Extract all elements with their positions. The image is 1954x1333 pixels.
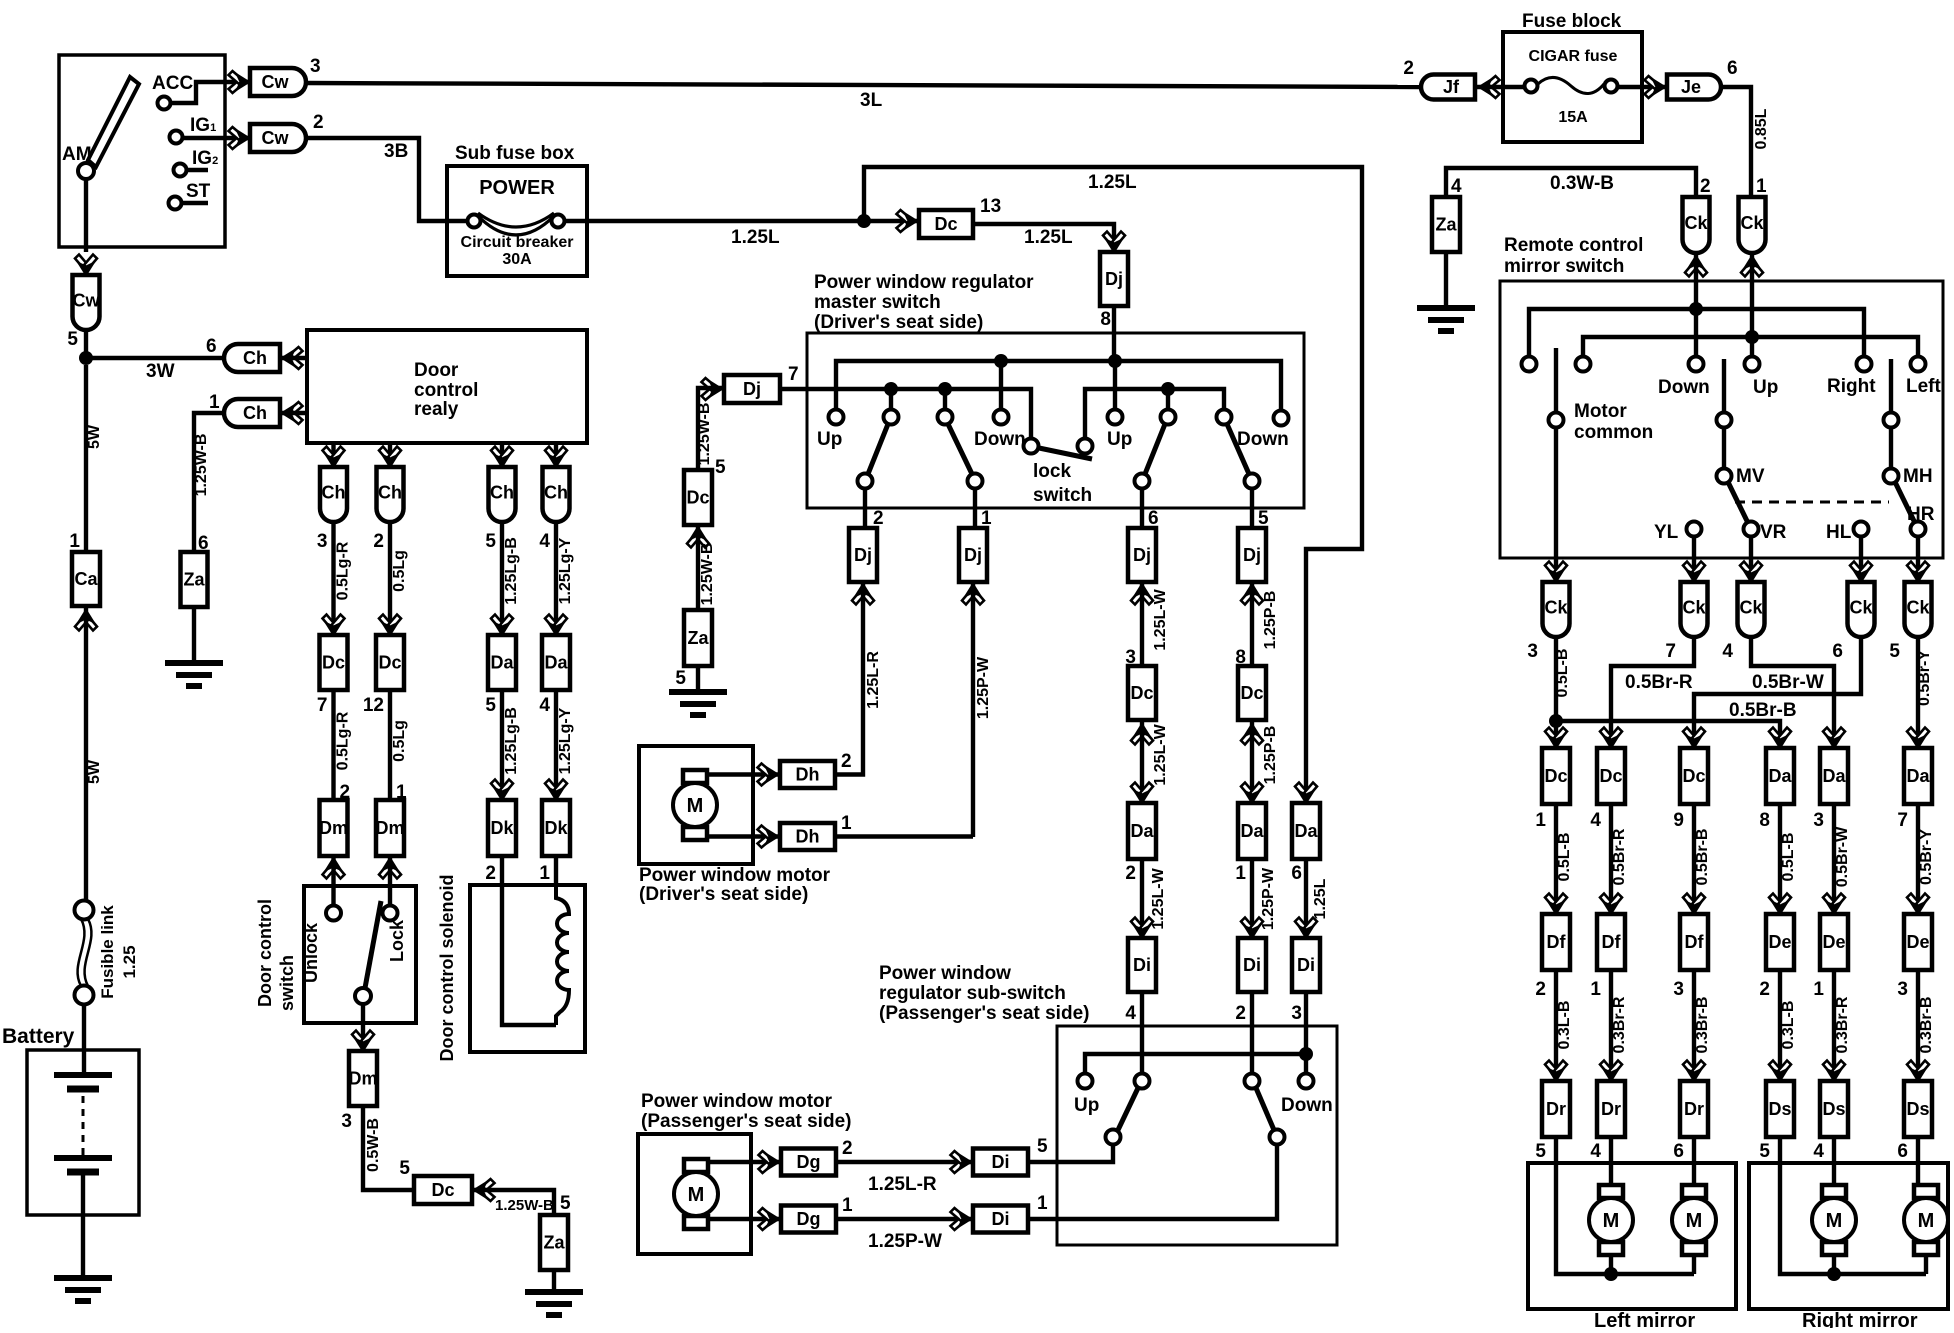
svg-text:0.3Br-R: 0.3Br-R — [1834, 996, 1851, 1053]
ground — [525, 1292, 583, 1315]
terminal contact — [884, 410, 899, 425]
wire Za to ground — [696, 666, 700, 692]
terminal — [1717, 413, 1732, 428]
svg-text:Ch: Ch — [378, 483, 402, 503]
connector Dj pin 7 — [724, 375, 780, 403]
svg-text:5: 5 — [715, 457, 726, 478]
svg-text:Battery: Battery — [2, 1025, 75, 1048]
svg-text:1.25Lg-Y: 1.25Lg-Y — [557, 707, 574, 774]
wire 1.25W-B feed — [698, 388, 724, 470]
wire 5W lower — [84, 606, 88, 901]
terminal Up (driver) — [829, 410, 844, 425]
wire 1.25L-R to Di5 — [836, 1160, 973, 1164]
connector Dh pin 1 — [780, 823, 835, 850]
svg-text:6: 6 — [1832, 641, 1843, 662]
connector Ck pin 1 — [1739, 197, 1766, 253]
wire Dh1 up to Dj1 — [835, 834, 973, 838]
svg-text:4: 4 — [1125, 1003, 1136, 1024]
svg-text:1.25L-W: 1.25L-W — [1152, 588, 1169, 650]
svg-text:regulator sub-switch: regulator sub-switch — [879, 983, 1066, 1004]
svg-text:2: 2 — [1125, 863, 1136, 884]
connector Dc arrow — [474, 1179, 495, 1201]
svg-text:0.3L-B: 0.3L-B — [1780, 1001, 1797, 1050]
svg-text:0.5W-B: 0.5W-B — [365, 1118, 382, 1172]
svg-text:Down: Down — [1237, 429, 1289, 450]
svg-text:Ck: Ck — [1849, 598, 1873, 618]
svg-text:0.3Br-B: 0.3Br-B — [1918, 997, 1935, 1054]
battery cell plates — [54, 1072, 112, 1078]
wire 0.5Lg-R — [331, 522, 335, 635]
svg-text:Ck: Ck — [1544, 598, 1568, 618]
fusible link — [75, 901, 94, 920]
node junction 0.5 L-B — [1549, 714, 1563, 728]
svg-text:3: 3 — [1527, 641, 1538, 662]
wire Dj7 bus — [780, 389, 1031, 439]
connector Dj pin 5 — [1238, 528, 1266, 582]
wire Ck7 to Dc4 — [1611, 637, 1694, 748]
door control relay box — [307, 330, 587, 443]
svg-text:Dm: Dm — [319, 818, 348, 838]
svg-text:0.3W-B: 0.3W-B — [1550, 173, 1614, 194]
svg-text:1.25W-B: 1.25W-B — [699, 543, 716, 606]
connector Da pin 8 — [1769, 728, 1791, 749]
connector Dr pin 6 — [1683, 1061, 1705, 1082]
terminal Up (sub) — [1078, 1074, 1093, 1089]
svg-text:Cw: Cw — [73, 291, 101, 311]
svg-text:8: 8 — [1100, 309, 1111, 330]
wire 0.3W-B — [1446, 168, 1696, 197]
svg-text:Ds: Ds — [1768, 1099, 1791, 1119]
svg-text:Ck: Ck — [1682, 598, 1706, 618]
terminal contact — [1135, 1074, 1150, 1089]
connector Ch1 arrow — [282, 402, 303, 424]
svg-text:Dj: Dj — [1133, 545, 1151, 565]
svg-text:5: 5 — [67, 329, 78, 350]
svg-text:Df: Df — [1602, 932, 1622, 952]
lock switch terminal — [1078, 439, 1093, 454]
svg-text:3: 3 — [1813, 810, 1824, 831]
svg-text:Di: Di — [1243, 955, 1261, 975]
motor M right-horizontal — [1914, 1185, 1938, 1198]
wire Za ground — [552, 1270, 556, 1292]
svg-text:Ch: Ch — [243, 403, 267, 423]
svg-text:2: 2 — [1403, 58, 1414, 79]
svg-text:AM: AM — [62, 144, 92, 165]
wire Di2 into sub-switch — [1250, 992, 1254, 1074]
connector Jf arrow — [1479, 76, 1500, 98]
svg-text:2: 2 — [373, 531, 384, 552]
wire to Dj5 — [1250, 488, 1254, 528]
connector Dj pin 1 — [959, 528, 987, 582]
wire stub contact — [943, 389, 947, 410]
connector Dm pin 3 — [349, 1051, 377, 1106]
svg-text:4: 4 — [539, 695, 550, 716]
svg-text:Da: Da — [1822, 766, 1846, 786]
svg-text:1.25: 1.25 — [120, 945, 139, 978]
svg-text:Power window: Power window — [879, 963, 1011, 984]
svg-text:1: 1 — [842, 1195, 853, 1216]
connector Ck pin 4 — [1738, 582, 1765, 637]
terminal common — [355, 988, 371, 1004]
svg-text:Dc: Dc — [1130, 683, 1153, 703]
svg-text:0.5Br-R: 0.5Br-R — [1611, 828, 1628, 885]
connector Ck pin 6 arrow — [1850, 562, 1872, 583]
svg-text:Dm: Dm — [348, 1069, 377, 1089]
svg-text:Ca: Ca — [74, 569, 98, 589]
left mirror box — [1528, 1163, 1736, 1309]
svg-text:4: 4 — [539, 531, 550, 552]
svg-text:6: 6 — [1897, 1141, 1908, 1162]
svg-text:Cw: Cw — [262, 128, 290, 148]
svg-text:5W: 5W — [86, 759, 103, 784]
wire stub contact — [889, 389, 893, 410]
wire Ck5 to Da7 — [1916, 637, 1920, 748]
terminal lever — [968, 474, 983, 489]
svg-text:Right: Right — [1827, 376, 1876, 397]
connector Da pin 7 — [1907, 728, 1929, 749]
svg-text:4: 4 — [1590, 810, 1601, 831]
svg-text:5: 5 — [675, 668, 686, 689]
connector Ch pin 1 — [224, 399, 280, 427]
svg-text:Down: Down — [1281, 1095, 1333, 1116]
wire 1.25L upper branch — [864, 167, 1362, 803]
svg-text:Df: Df — [1685, 932, 1705, 952]
door switch lever — [365, 901, 381, 988]
svg-text:3B: 3B — [384, 141, 408, 162]
svg-text:(Driver's seat side): (Driver's seat side) — [814, 312, 983, 333]
svg-text:3: 3 — [317, 531, 328, 552]
svg-text:1: 1 — [69, 531, 80, 552]
switch lever — [868, 424, 888, 474]
svg-text:Dm: Dm — [375, 818, 404, 838]
svg-text:1.25Lg-B: 1.25Lg-B — [503, 707, 520, 775]
connector Cw pin 2 arrow — [229, 127, 250, 149]
wire Ck1 to Up — [1750, 253, 1754, 356]
svg-text:5: 5 — [1535, 1141, 1546, 1162]
svg-text:M: M — [687, 795, 704, 817]
svg-text:0.5Lg-R: 0.5Lg-R — [335, 711, 352, 770]
svg-text:Je: Je — [1681, 77, 1701, 97]
svg-text:Da: Da — [1768, 766, 1792, 786]
svg-text:6: 6 — [1291, 863, 1302, 884]
svg-text:1.25P-B: 1.25P-B — [1262, 726, 1279, 785]
svg-text:CIGAR fuse: CIGAR fuse — [1529, 48, 1618, 65]
svg-text:Za: Za — [1435, 215, 1457, 235]
svg-text:1: 1 — [1535, 810, 1546, 831]
svg-text:POWER: POWER — [479, 177, 555, 199]
connector Dg pin 1 — [781, 1206, 836, 1233]
wire motor to Dh2 — [707, 772, 780, 776]
svg-text:Dg: Dg — [797, 1209, 821, 1229]
wire MH column — [1889, 359, 1893, 468]
wire 0.3L-B — [1554, 970, 1558, 1081]
svg-text:realy: realy — [414, 399, 459, 420]
svg-text:Da: Da — [490, 653, 514, 673]
connector Dc pin 5 (door) — [414, 1176, 472, 1204]
node bus junction — [1108, 354, 1122, 368]
svg-text:7: 7 — [317, 695, 328, 716]
sub fuse box — [447, 166, 587, 276]
wire solenoid left leg — [502, 885, 556, 1025]
power window motor passenger box — [638, 1134, 751, 1254]
wire 0.5L-B — [1778, 804, 1782, 914]
svg-text:0.5Br-R: 0.5Br-R — [1625, 672, 1693, 693]
connector Ck pin 3 arrow — [1545, 562, 1567, 583]
svg-text:6: 6 — [1727, 58, 1738, 79]
wire to Unlock — [331, 886, 335, 905]
wire 0.3Br-R — [1609, 970, 1613, 1081]
lock switch terminal — [1024, 439, 1039, 454]
connector Dc pin 8 — [1238, 666, 1266, 720]
wire Di5 into sub-switch — [1028, 1144, 1113, 1162]
wire 1.25L col5 — [1295, 783, 1317, 804]
battery box — [27, 1050, 139, 1215]
terminal contact — [1217, 410, 1232, 425]
wire 1.25Lg-B — [500, 690, 504, 800]
svg-text:Fuse block: Fuse block — [1522, 11, 1622, 32]
wire 1.25L from breaker — [565, 219, 919, 223]
wire Da to Di — [1250, 859, 1254, 938]
svg-text:Up: Up — [1074, 1095, 1099, 1116]
connector Da pin 4 — [542, 635, 570, 690]
svg-text:6: 6 — [206, 336, 217, 357]
terminal Down — [1689, 357, 1704, 372]
connector Ck pin 4 arrow — [1740, 562, 1762, 583]
svg-text:ACC: ACC — [152, 73, 193, 94]
wire 0.5Lg-R — [331, 690, 335, 800]
svg-text:Dr: Dr — [1684, 1099, 1704, 1119]
svg-text:1: 1 — [841, 813, 852, 834]
connector Ds pin 6 — [1907, 1061, 1929, 1082]
terminal ST — [169, 197, 182, 210]
wire to battery — [82, 1004, 86, 1075]
wire Ck2 to Down — [1694, 253, 1698, 356]
connector Da pin 5 — [488, 635, 516, 690]
connector Ds pin 5 — [1769, 1061, 1791, 1082]
svg-text:Za: Za — [543, 1233, 565, 1253]
svg-text:Dr: Dr — [1546, 1099, 1566, 1119]
connector Di pin 1 — [973, 1206, 1028, 1233]
svg-text:3: 3 — [1673, 979, 1684, 1000]
connector Dk — [488, 800, 516, 856]
switch lever — [1256, 1088, 1274, 1130]
wire 0.5Br-B branch to Da8 — [1556, 721, 1780, 748]
svg-text:Jf: Jf — [1443, 77, 1460, 97]
svg-text:Da: Da — [1240, 821, 1264, 841]
wire to solenoid — [554, 856, 558, 885]
connector Ck pin 2 — [1683, 197, 1710, 253]
svg-text:Dc: Dc — [1544, 766, 1567, 786]
connector Jf pin 2 — [1421, 75, 1475, 100]
svg-text:De: De — [1906, 932, 1929, 952]
node junction 1.25L — [857, 214, 871, 228]
wire 1.25L-R col — [861, 584, 865, 774]
wire 1.25L to master switch — [973, 224, 1114, 252]
svg-text:1.25L: 1.25L — [1088, 172, 1137, 193]
wire 1.25Lg-Y — [554, 522, 558, 635]
svg-text:Dj: Dj — [1105, 269, 1123, 289]
wire 0.5Lg — [388, 690, 392, 800]
svg-text:Door control: Door control — [255, 899, 275, 1007]
svg-text:HL: HL — [1826, 522, 1852, 543]
connector Ch6 arrow — [282, 347, 303, 369]
wire 0.5Br-R — [1609, 804, 1613, 914]
svg-text:0.3Br-B: 0.3Br-B — [1694, 997, 1711, 1054]
remote control mirror switch box — [1500, 281, 1943, 558]
svg-text:3: 3 — [310, 56, 321, 77]
connector Dg pin 2 — [781, 1149, 836, 1176]
svg-text:lock: lock — [1033, 461, 1071, 482]
svg-text:YL: YL — [1654, 522, 1679, 543]
svg-text:5W: 5W — [86, 424, 103, 449]
wire Ck6 to Dc9 — [1694, 637, 1861, 748]
terminal Lock — [383, 906, 398, 921]
svg-text:2: 2 — [841, 751, 852, 772]
svg-text:MH: MH — [1903, 466, 1933, 487]
connector Dc pin 12 — [376, 635, 404, 690]
svg-text:7: 7 — [788, 364, 799, 385]
svg-text:Di: Di — [1133, 955, 1151, 975]
node junction — [1745, 330, 1759, 344]
wire motor to bus — [1609, 1255, 1613, 1274]
power window regulator master switch box — [807, 333, 1304, 508]
node bus junction — [994, 354, 1008, 368]
terminal Up (passenger) — [1108, 410, 1123, 425]
node junction — [1689, 302, 1703, 316]
wire to door switch — [388, 856, 392, 886]
svg-text:4: 4 — [1590, 1141, 1601, 1162]
wire 0.5Br-B — [1692, 804, 1696, 914]
wire 0.3Br-R — [1832, 970, 1836, 1081]
svg-text:common: common — [1574, 422, 1653, 443]
connector Dh pin 2 — [780, 761, 835, 788]
svg-text:0.5L-B: 0.5L-B — [1556, 833, 1573, 882]
svg-text:1: 1 — [1813, 979, 1824, 1000]
svg-text:Down: Down — [1658, 377, 1710, 398]
svg-text:3: 3 — [1897, 979, 1908, 1000]
svg-text:Up: Up — [1107, 429, 1132, 450]
svg-text:2: 2 — [873, 508, 884, 529]
wire 3L main feed — [306, 83, 1421, 87]
svg-text:3: 3 — [1291, 1003, 1302, 1024]
terminal motor common — [1549, 413, 1564, 428]
wire to Dj2 — [863, 488, 867, 528]
connector Da pin 6 — [1292, 803, 1320, 859]
ignition switch lever — [88, 77, 139, 167]
svg-text:Left mirror: Left mirror — [1594, 1310, 1695, 1328]
svg-text:6: 6 — [1673, 1141, 1684, 1162]
wire Za ground — [192, 607, 196, 663]
svg-text:1.25P-W: 1.25P-W — [868, 1231, 942, 1252]
wire Dj5 to Dc8 — [1250, 584, 1254, 666]
connector Dc arrow — [897, 210, 918, 232]
wire battery feed 5W — [84, 365, 88, 552]
wire bus B — [1583, 337, 1918, 356]
switch lever MH — [1895, 482, 1915, 523]
svg-text:0.5Lg-R: 0.5Lg-R — [335, 541, 352, 600]
svg-text:0.5Lg: 0.5Lg — [391, 720, 408, 762]
terminal Down (driver) — [994, 410, 1009, 425]
svg-text:Da: Da — [1294, 821, 1318, 841]
connector De pin 2 — [1769, 894, 1791, 915]
terminal Right — [1857, 357, 1872, 372]
connector Dr pin 4 — [1600, 1061, 1622, 1082]
connector Ca pin 1 — [72, 552, 100, 606]
node junction — [1161, 382, 1175, 396]
svg-text:Za: Za — [183, 570, 205, 590]
node junction — [1299, 1047, 1313, 1061]
svg-text:M: M — [688, 1184, 705, 1206]
svg-text:1.25W-B: 1.25W-B — [495, 1197, 554, 1214]
wire to left mirror motor 2 — [1692, 1137, 1696, 1186]
svg-text:1: 1 — [1037, 1193, 1048, 1214]
svg-text:Ds: Ds — [1822, 1099, 1845, 1119]
wire motor to Dg2 — [708, 1160, 781, 1164]
svg-text:0.5Lg: 0.5Lg — [391, 550, 408, 592]
node junction — [1827, 1267, 1841, 1281]
wire Dc to Da — [1140, 720, 1144, 803]
wire fuse right — [1617, 85, 1667, 89]
wire stub — [1166, 389, 1170, 410]
wire 0.5L-B to junction — [1554, 637, 1558, 748]
connector Dm — [320, 800, 348, 856]
wire HR down — [1916, 536, 1920, 582]
wire motor to Dh1 — [707, 834, 780, 838]
node junction — [884, 382, 898, 396]
svg-text:M: M — [1603, 1210, 1620, 1232]
terminal lever — [1245, 474, 1260, 489]
connector Dc pin 7 — [320, 635, 348, 690]
svg-text:Door: Door — [414, 360, 459, 381]
svg-text:Dc: Dc — [1599, 766, 1622, 786]
connector Za (ground) — [684, 610, 712, 666]
svg-text:Power window motor: Power window motor — [639, 865, 831, 886]
svg-text:Dc: Dc — [378, 653, 401, 673]
connector Za (relay ground) — [181, 552, 208, 607]
svg-text:Dc: Dc — [934, 214, 957, 234]
svg-text:8: 8 — [1759, 810, 1770, 831]
svg-text:control: control — [414, 380, 478, 401]
svg-text:Fusible link: Fusible link — [98, 905, 117, 999]
svg-text:VR: VR — [1760, 522, 1787, 543]
svg-text:1.25L-W: 1.25L-W — [1152, 723, 1169, 785]
connector Ck pin 5 — [1905, 582, 1932, 637]
wire Dh2 up to Dj2 — [835, 772, 863, 777]
connector Za (mirror ground) — [1432, 197, 1460, 252]
svg-text:M: M — [1918, 1210, 1935, 1232]
connector Dc pin 9 — [1683, 728, 1705, 749]
svg-text:Up: Up — [817, 429, 842, 450]
wire 1.25P-W col — [971, 584, 975, 837]
svg-text:Ch: Ch — [544, 483, 568, 503]
svg-text:Unlock: Unlock — [301, 922, 321, 983]
svg-text:switch: switch — [277, 955, 297, 1011]
svg-text:Dg: Dg — [797, 1152, 821, 1172]
svg-text:Power window regulator: Power window regulator — [814, 272, 1034, 293]
svg-text:Dc: Dc — [431, 1180, 454, 1200]
wire 0.3Br-B — [1692, 970, 1696, 1081]
svg-text:MV: MV — [1736, 466, 1765, 487]
svg-text:1.25L-R: 1.25L-R — [865, 651, 882, 709]
wire to Lock — [388, 886, 392, 905]
terminal MV — [1717, 469, 1732, 484]
svg-text:Dj: Dj — [743, 379, 761, 399]
wire 0.3Br-B — [1916, 970, 1920, 1081]
svg-text:0.85L: 0.85L — [1753, 108, 1770, 149]
svg-text:Dj: Dj — [854, 545, 872, 565]
connector Dc (main feed) — [919, 210, 973, 238]
connector Za (door ground) — [540, 1215, 568, 1270]
